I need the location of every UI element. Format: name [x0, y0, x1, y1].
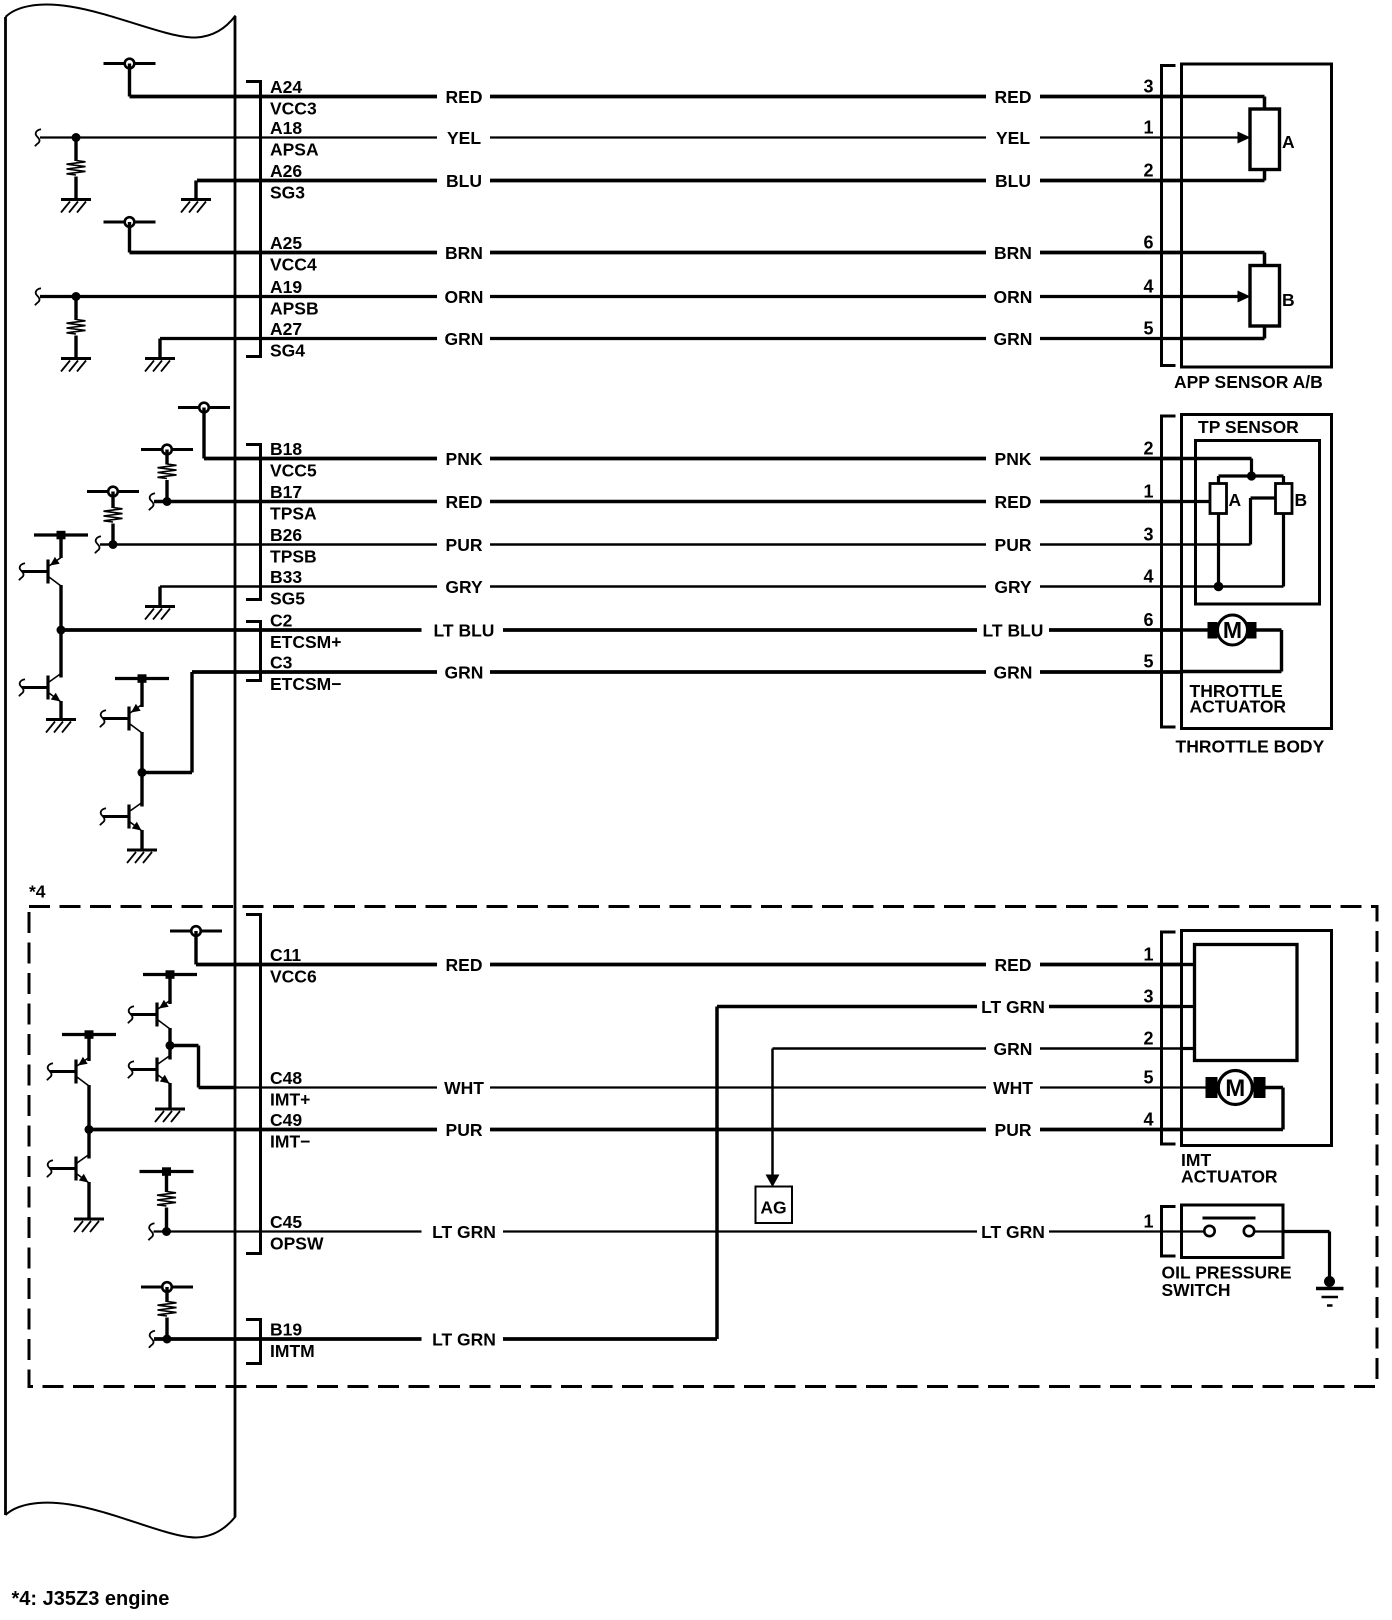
svg-text:GRY: GRY — [994, 577, 1032, 597]
svg-text:SWITCH: SWITCH — [1162, 1280, 1231, 1300]
svg-text:TPSB: TPSB — [270, 547, 317, 567]
svg-text:*4: *4 — [29, 882, 46, 902]
svg-text:A: A — [1282, 132, 1295, 152]
svg-text:APSB: APSB — [270, 299, 319, 319]
svg-text:B19: B19 — [270, 1320, 302, 1340]
svg-text:PNK: PNK — [995, 449, 1032, 469]
svg-text:2: 2 — [1143, 439, 1153, 459]
svg-text:B: B — [1282, 290, 1295, 310]
svg-text:A25: A25 — [270, 233, 302, 253]
svg-text:ORN: ORN — [994, 287, 1033, 307]
svg-text:SG4: SG4 — [270, 341, 305, 361]
svg-text:WHT: WHT — [993, 1078, 1033, 1098]
svg-text:TPSA: TPSA — [270, 504, 317, 524]
svg-text:BLU: BLU — [995, 171, 1031, 191]
svg-text:5: 5 — [1143, 319, 1153, 339]
svg-text:A19: A19 — [270, 277, 302, 297]
svg-text:VCC3: VCC3 — [270, 99, 317, 119]
svg-text:GRN: GRN — [445, 662, 484, 682]
svg-text:M: M — [1223, 617, 1242, 643]
svg-text:PUR: PUR — [995, 1120, 1032, 1140]
svg-text:LT GRN: LT GRN — [432, 1222, 496, 1242]
svg-text:GRN: GRN — [994, 662, 1033, 682]
svg-text:ETCSM−: ETCSM− — [270, 674, 341, 694]
svg-text:IMTM: IMTM — [270, 1341, 315, 1361]
svg-text:ORN: ORN — [445, 287, 484, 307]
svg-text:3: 3 — [1143, 987, 1153, 1007]
svg-text:GRY: GRY — [445, 577, 483, 597]
svg-text:RED: RED — [995, 492, 1032, 512]
svg-text:TP SENSOR: TP SENSOR — [1198, 417, 1299, 437]
svg-text:PUR: PUR — [995, 535, 1032, 555]
svg-text:ACTUATOR: ACTUATOR — [1190, 697, 1287, 717]
svg-text:LT GRN: LT GRN — [981, 1222, 1045, 1242]
svg-text:RED: RED — [446, 955, 483, 975]
svg-text:A18: A18 — [270, 118, 302, 138]
svg-text:C49: C49 — [270, 1110, 302, 1130]
svg-text:3: 3 — [1143, 77, 1153, 97]
svg-text:B18: B18 — [270, 439, 302, 459]
svg-text:LT GRN: LT GRN — [981, 997, 1045, 1017]
svg-text:4: 4 — [1143, 1110, 1153, 1130]
svg-text:RED: RED — [446, 492, 483, 512]
svg-text:1: 1 — [1143, 945, 1153, 965]
svg-text:PNK: PNK — [446, 449, 483, 469]
svg-text:M: M — [1225, 1075, 1245, 1102]
svg-text:BRN: BRN — [994, 243, 1032, 263]
svg-text:3: 3 — [1143, 525, 1153, 545]
svg-text:A: A — [1229, 490, 1242, 510]
svg-text:LT BLU: LT BLU — [983, 620, 1044, 640]
svg-text:B26: B26 — [270, 525, 302, 545]
svg-text:ACTUATOR: ACTUATOR — [1181, 1167, 1278, 1187]
svg-text:APSA: APSA — [270, 140, 319, 160]
svg-text:6: 6 — [1143, 233, 1153, 253]
svg-text:AG: AG — [760, 1198, 786, 1218]
svg-text:4: 4 — [1143, 567, 1153, 587]
svg-text:ETCSM+: ETCSM+ — [270, 632, 341, 652]
svg-text:RED: RED — [995, 87, 1032, 107]
svg-text:RED: RED — [995, 955, 1032, 975]
svg-text:A24: A24 — [270, 77, 302, 97]
svg-text:C45: C45 — [270, 1212, 302, 1232]
svg-text:VCC5: VCC5 — [270, 461, 317, 481]
svg-text:BRN: BRN — [445, 243, 483, 263]
svg-text:C48: C48 — [270, 1068, 302, 1088]
svg-text:GRN: GRN — [445, 329, 484, 349]
svg-text:SG3: SG3 — [270, 183, 305, 203]
svg-text:1: 1 — [1143, 482, 1153, 502]
svg-text:APP SENSOR A/B: APP SENSOR A/B — [1174, 372, 1323, 392]
svg-text:*4: J35Z3 engine: *4: J35Z3 engine — [12, 1588, 170, 1610]
svg-text:6: 6 — [1143, 610, 1153, 630]
svg-text:IMT−: IMT− — [270, 1132, 310, 1152]
svg-text:C3: C3 — [270, 653, 293, 673]
svg-text:GRN: GRN — [994, 329, 1033, 349]
svg-text:C11: C11 — [270, 945, 301, 965]
svg-text:LT GRN: LT GRN — [432, 1329, 496, 1349]
svg-text:VCC6: VCC6 — [270, 967, 317, 987]
svg-text:5: 5 — [1143, 1068, 1153, 1088]
svg-text:4: 4 — [1143, 277, 1153, 297]
svg-text:PUR: PUR — [446, 1120, 483, 1140]
svg-text:LT BLU: LT BLU — [434, 620, 495, 640]
svg-text:B: B — [1295, 490, 1308, 510]
svg-text:5: 5 — [1143, 652, 1153, 672]
svg-text:C2: C2 — [270, 611, 293, 631]
svg-text:PUR: PUR — [446, 535, 483, 555]
svg-text:WHT: WHT — [444, 1078, 484, 1098]
svg-text:YEL: YEL — [996, 128, 1030, 148]
svg-text:2: 2 — [1143, 161, 1153, 181]
svg-text:1: 1 — [1143, 1212, 1153, 1232]
svg-text:RED: RED — [446, 87, 483, 107]
svg-text:1: 1 — [1143, 118, 1153, 138]
svg-text:OPSW: OPSW — [270, 1234, 324, 1254]
svg-text:2: 2 — [1143, 1029, 1153, 1049]
svg-text:YEL: YEL — [447, 128, 481, 148]
svg-text:A26: A26 — [270, 161, 302, 181]
svg-text:SG5: SG5 — [270, 589, 305, 609]
svg-text:THROTTLE BODY: THROTTLE BODY — [1176, 737, 1325, 757]
svg-text:BLU: BLU — [446, 171, 482, 191]
svg-text:B17: B17 — [270, 482, 302, 502]
svg-text:VCC4: VCC4 — [270, 255, 317, 275]
svg-text:IMT+: IMT+ — [270, 1090, 310, 1110]
svg-text:B33: B33 — [270, 567, 302, 587]
svg-text:GRN: GRN — [994, 1039, 1033, 1059]
svg-text:A27: A27 — [270, 319, 302, 339]
